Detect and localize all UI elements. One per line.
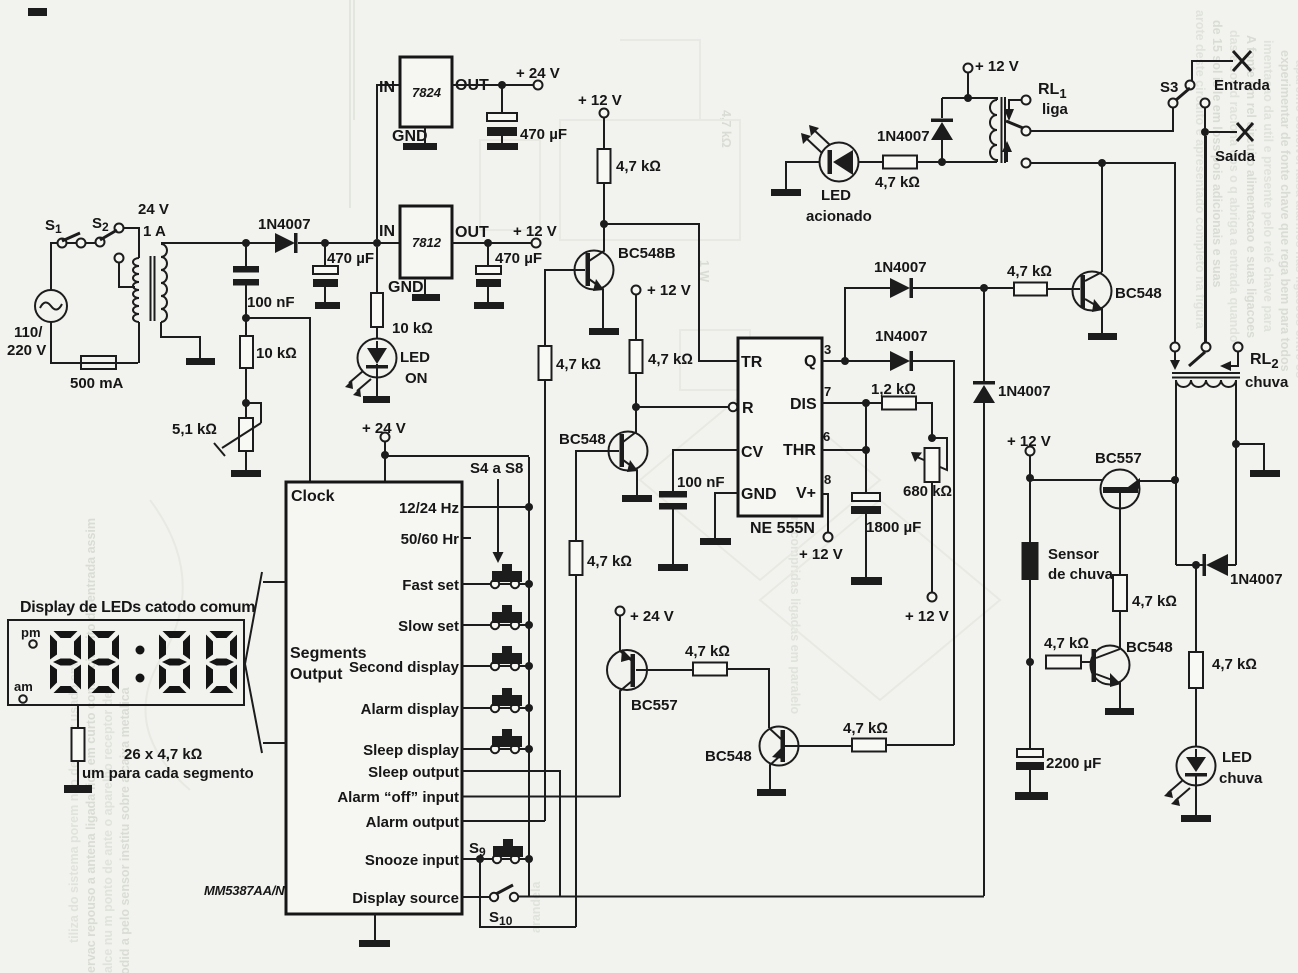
svg-text:Entrada: Entrada bbox=[1214, 77, 1271, 94]
svg-text:Clock: Clock bbox=[291, 488, 335, 505]
svg-text:220 V: 220 V bbox=[7, 342, 46, 359]
relay RL2 coil bbox=[1176, 380, 1236, 387]
svg-text:4,7 kΩ: 4,7 kΩ bbox=[648, 351, 693, 368]
svg-text:4,7 kΩ: 4,7 kΩ bbox=[587, 553, 632, 570]
LED ON bbox=[358, 339, 397, 378]
regulator 7812 bbox=[373, 239, 381, 247]
wire display source long line bbox=[519, 896, 985, 898]
svg-text:Alarm display: Alarm display bbox=[361, 701, 460, 718]
svg-text:de chuva: de chuva bbox=[1048, 566, 1114, 583]
svg-text:THR: THR bbox=[783, 442, 816, 459]
svg-text:26 x 4,7 kΩ: 26 x 4,7 kΩ bbox=[124, 746, 202, 763]
svg-text:1800 µF: 1800 µF bbox=[866, 519, 921, 536]
resistor 4,7k (BC548B collector) bbox=[598, 149, 611, 183]
svg-text:BC557: BC557 bbox=[631, 697, 678, 714]
trimpot 5,1 kOhm bbox=[242, 399, 250, 407]
svg-text:um para cada segmento: um para cada segmento bbox=[82, 765, 254, 782]
capacitor 1800 uF bbox=[852, 493, 880, 501]
svg-text:Output: Output bbox=[290, 666, 343, 683]
resistor 10 kOhm bbox=[240, 336, 253, 368]
svg-text:liga: liga bbox=[1042, 101, 1068, 118]
node / wire to TR bbox=[600, 220, 608, 228]
svg-text:470 µF: 470 µF bbox=[495, 250, 542, 267]
svg-text:Display de LEDs catodo comum: Display de LEDs catodo comum bbox=[20, 599, 255, 616]
scan artifact top-left bbox=[28, 8, 47, 16]
svg-text:4,7 kΩ: 4,7 kΩ bbox=[556, 356, 601, 373]
svg-text:odid a pelo sensor institu sob: odid a pelo sensor institu sobre a caixa… bbox=[118, 686, 132, 973]
svg-text:am: am bbox=[14, 679, 33, 694]
capacitor 100 nF bbox=[242, 239, 250, 247]
resistor 10 kOhm (LED ON) bbox=[371, 293, 383, 327]
svg-text:470 µF: 470 µF bbox=[520, 126, 567, 143]
svg-text:Q: Q bbox=[804, 353, 816, 370]
svg-text:BC557: BC557 bbox=[1095, 450, 1142, 467]
svg-text:ervac repouso a antena ligada: ervac repouso a antena ligada fica em cu… bbox=[84, 518, 98, 973]
+24V terminal (BC557 emitter) bbox=[616, 607, 625, 616]
resistor (display common) bbox=[77, 705, 79, 728]
svg-text:aparelho sensivel falsa alarme: aparelho sensivel falsa alarmes nas liga… bbox=[1293, 60, 1298, 378]
LED chuva bbox=[1177, 747, 1216, 786]
svg-text:50/60 Hr: 50/60 Hr bbox=[401, 531, 460, 548]
svg-text:4,7 kΩ: 4,7 kΩ bbox=[616, 158, 661, 175]
svg-text:Slow set: Slow set bbox=[398, 618, 459, 635]
transistor BC557 (rain) bbox=[1030, 479, 1103, 481]
resistor 4,7k (BC557 collector load) bbox=[1113, 575, 1127, 611]
regulator 7824 bbox=[377, 85, 400, 239]
bus funnel display-clock bbox=[245, 572, 262, 753]
V+ terminal bbox=[822, 494, 828, 533]
capacitor 2200 uF bbox=[1017, 749, 1043, 757]
svg-text:Fast set: Fast set bbox=[402, 577, 459, 594]
svg-text:4,7 kΩ: 4,7 kΩ bbox=[1212, 656, 1257, 673]
svg-text:Display source: Display source bbox=[352, 890, 459, 907]
svg-text:alce nu m ponto de ante o apar: alce nu m ponto de ante o aparelho recep… bbox=[101, 692, 115, 973]
svg-text:1N4007: 1N4007 bbox=[874, 259, 927, 276]
capacitor 470 uF (input) bbox=[321, 239, 329, 247]
svg-text:4,7 kΩ: 4,7 kΩ bbox=[1007, 263, 1052, 280]
diode 1N4007 (RL2 flyback) bbox=[1176, 564, 1236, 566]
pin THR wire bbox=[822, 403, 866, 493]
svg-text:+ 12 V: + 12 V bbox=[975, 58, 1019, 75]
svg-text:1 A: 1 A bbox=[143, 223, 166, 240]
svg-text:NE 555N: NE 555N bbox=[750, 520, 815, 537]
svg-text:+ 12 V: + 12 V bbox=[647, 282, 691, 299]
svg-text:500 mA: 500 mA bbox=[70, 375, 124, 392]
diode 1N4007 (night line) bbox=[983, 288, 985, 381]
svg-text:4,7 kΩ: 4,7 kΩ bbox=[875, 174, 920, 191]
svg-text:110/: 110/ bbox=[14, 324, 43, 341]
AC source 110/220V bbox=[35, 290, 67, 322]
antenna Entrada bbox=[1233, 51, 1251, 71]
svg-text:GND: GND bbox=[392, 128, 428, 145]
svg-text:680 kΩ: 680 kΩ bbox=[903, 483, 952, 500]
svg-text:1N4007: 1N4007 bbox=[258, 216, 311, 233]
timer NE555N bbox=[738, 338, 822, 516]
sensor de chuva bbox=[1022, 542, 1039, 580]
svg-text:4,7 kΩ: 4,7 kΩ bbox=[1132, 593, 1177, 610]
relay RL2 core bbox=[1172, 372, 1240, 374]
svg-text:4,7 kΩ: 4,7 kΩ bbox=[843, 720, 888, 737]
svg-text:GND: GND bbox=[388, 279, 424, 296]
ground (RL2) bbox=[1236, 444, 1264, 470]
trimpot 680 kOhm bbox=[928, 434, 936, 442]
svg-text:GND: GND bbox=[741, 486, 777, 503]
resistor 4,7k (BC548B base / alarm) bbox=[545, 270, 585, 346]
transistor BC548B bbox=[575, 251, 614, 290]
resistor 4,7k (R pullup) bbox=[630, 340, 643, 373]
svg-text:ON: ON bbox=[405, 370, 428, 387]
svg-text:1N4007: 1N4007 bbox=[998, 383, 1051, 400]
svg-text:Saída: Saída bbox=[1215, 148, 1256, 165]
transistor BC548 (rain) bbox=[1091, 646, 1130, 685]
svg-text:V+: V+ bbox=[796, 485, 816, 502]
svg-text:12/24 Hz: 12/24 Hz bbox=[399, 500, 459, 517]
svg-text:arandela: arandela bbox=[529, 881, 543, 933]
svg-text:Sleep output: Sleep output bbox=[368, 764, 459, 781]
svg-text:chuva: chuva bbox=[1219, 770, 1263, 787]
svg-text:BC548: BC548 bbox=[559, 431, 606, 448]
relay RL1 coil bbox=[942, 98, 997, 100]
svg-text:pm: pm bbox=[21, 625, 41, 640]
svg-text:+ 24 V: + 24 V bbox=[516, 65, 560, 82]
svg-text:TR: TR bbox=[741, 354, 763, 371]
resistor 4,7k (BC557 base) bbox=[636, 669, 693, 671]
ground (transformer secondary) bbox=[161, 322, 200, 358]
svg-text:1N4007: 1N4007 bbox=[875, 328, 928, 345]
LED acionado bbox=[786, 162, 819, 189]
node R / wire to pin R bbox=[632, 403, 640, 411]
svg-text:S3: S3 bbox=[1160, 79, 1178, 96]
svg-text:7: 7 bbox=[824, 384, 831, 399]
svg-text:Snooze input: Snooze input bbox=[365, 852, 459, 869]
transistor BC548 (reset driver) bbox=[609, 432, 648, 471]
svg-text:IN: IN bbox=[379, 79, 395, 96]
wire snooze loop bbox=[480, 859, 576, 927]
pin Q wire bbox=[822, 360, 890, 362]
wire secondary top rail bbox=[161, 242, 275, 244]
svg-text:OUT: OUT bbox=[455, 224, 489, 241]
capacitor 100 nF (CV) bbox=[673, 450, 738, 491]
svg-text:10 kΩ: 10 kΩ bbox=[392, 320, 433, 337]
wire RL1 NC rail bbox=[1031, 163, 1176, 343]
resistor 4,7k (LED chuva) bbox=[1195, 565, 1197, 652]
svg-text:100 nF: 100 nF bbox=[247, 294, 295, 311]
svg-text:+ 12 V: + 12 V bbox=[513, 223, 557, 240]
svg-text:Alarm output: Alarm output bbox=[366, 814, 459, 831]
wire S1 to source bbox=[51, 243, 58, 290]
svg-text:6: 6 bbox=[823, 429, 830, 444]
svg-text:100 nF: 100 nF bbox=[677, 474, 725, 491]
svg-text:BC548: BC548 bbox=[1115, 285, 1162, 302]
svg-text:R: R bbox=[742, 400, 754, 417]
svg-text:S4 a S8: S4 a S8 bbox=[470, 460, 523, 477]
svg-text:Alarm “off” input: Alarm “off” input bbox=[337, 789, 459, 806]
wire RL1 common to S3 bbox=[1031, 108, 1174, 132]
wire base line down to snooze loop bbox=[575, 575, 577, 927]
relay RL1 contacts bbox=[1022, 96, 1031, 105]
svg-text:DIS: DIS bbox=[790, 396, 817, 413]
svg-text:1,2 kΩ: 1,2 kΩ bbox=[871, 381, 916, 398]
ground (clock) bbox=[374, 914, 376, 940]
svg-text:24 V: 24 V bbox=[138, 201, 169, 218]
svg-text:+ 12 V: + 12 V bbox=[578, 92, 622, 109]
svg-text:+ 12 V: + 12 V bbox=[799, 546, 843, 563]
resistor 4,7k (rain base) bbox=[1046, 656, 1081, 669]
pin DIS / resistor 1,2 kOhm bbox=[822, 402, 882, 404]
transistor BC557 (inverter) bbox=[607, 650, 647, 690]
svg-text:Sleep display: Sleep display bbox=[363, 742, 460, 759]
svg-text:3: 3 bbox=[824, 342, 831, 357]
svg-text:BC548: BC548 bbox=[1126, 639, 1173, 656]
svg-text:LED: LED bbox=[821, 187, 851, 204]
clock IC MM5387AA/N bbox=[286, 482, 462, 914]
svg-text:5,1 kΩ: 5,1 kΩ bbox=[172, 421, 217, 438]
ground (trimpot) bbox=[245, 451, 247, 470]
svg-text:+ 24 V: + 24 V bbox=[630, 608, 674, 625]
svg-text:BC548: BC548 bbox=[705, 748, 752, 765]
transistor BC548 (Q buffer) bbox=[760, 727, 799, 766]
fuse 500 mA bbox=[51, 322, 138, 363]
resistor 4,7k (Q buffer base) bbox=[785, 745, 852, 747]
resistor 4,7k (LED acionado) bbox=[859, 161, 884, 163]
svg-text:4,7 kΩ: 4,7 kΩ bbox=[1044, 635, 1089, 652]
svg-text:2200 µF: 2200 µF bbox=[1046, 755, 1101, 772]
svg-text:4,7 kΩ: 4,7 kΩ bbox=[719, 110, 733, 148]
svg-text:BC548B: BC548B bbox=[618, 245, 676, 262]
svg-text:LED: LED bbox=[400, 349, 430, 366]
resistor 4,7k (reset base) bbox=[576, 451, 619, 541]
capacitor 470 uF (12V out) bbox=[484, 239, 492, 247]
svg-text:Sensor: Sensor bbox=[1048, 546, 1099, 563]
wire alarm output to base bbox=[544, 380, 546, 821]
svg-text:IN: IN bbox=[379, 223, 395, 240]
svg-text:LED: LED bbox=[1222, 749, 1252, 766]
svg-text:7812: 7812 bbox=[412, 235, 442, 250]
svg-text:8: 8 bbox=[824, 472, 831, 487]
svg-text:MM5387AA/N: MM5387AA/N bbox=[204, 883, 285, 898]
svg-text:4,7 kΩ: 4,7 kΩ bbox=[685, 643, 730, 660]
svg-text:Second display: Second display bbox=[349, 659, 460, 676]
wire node to clock bbox=[242, 314, 250, 322]
svg-text:acionado: acionado bbox=[806, 208, 872, 225]
svg-text:10 kΩ: 10 kΩ bbox=[256, 345, 297, 362]
capacitor 470 uF (24V out) bbox=[498, 81, 506, 89]
svg-text:CV: CV bbox=[741, 444, 764, 461]
+12V terminal (R pullup) bbox=[632, 286, 641, 295]
svg-text:7824: 7824 bbox=[412, 85, 442, 100]
svg-text:chuva: chuva bbox=[1245, 374, 1289, 391]
svg-text:470 µF: 470 µF bbox=[327, 250, 374, 267]
relay RL2 contacts bbox=[1171, 343, 1180, 352]
transistor BC548 (relay driver) bbox=[1101, 163, 1103, 272]
svg-text:1N4007: 1N4007 bbox=[877, 128, 930, 145]
svg-text:experimentar de fonte chave qu: experimentar de fonte chave que rega bem… bbox=[1278, 50, 1292, 372]
svg-text:+ 12 V: + 12 V bbox=[905, 608, 949, 625]
svg-text:1N4007: 1N4007 bbox=[1230, 571, 1283, 588]
resistor 4,7k (relay driver base) bbox=[980, 284, 988, 292]
antenna Saida bbox=[1201, 99, 1210, 108]
ground (555 GND) bbox=[715, 493, 738, 538]
